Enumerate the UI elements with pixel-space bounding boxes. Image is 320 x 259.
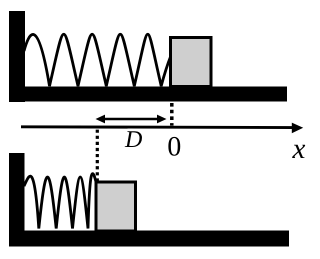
axis label x [292, 145, 305, 158]
bottom floor [9, 231, 289, 247]
x axis arrowhead [292, 123, 303, 134]
top wall [9, 11, 25, 102]
left arrowhead of D arrow [96, 115, 106, 124]
dotted line from top block left edge down to axis (x = 0) [170, 103, 174, 126]
right arrowhead of D arrow [157, 115, 167, 124]
bottom block [96, 182, 136, 231]
dotted line from axis down to bottom block left edge (x = -D) [96, 130, 99, 182]
top block [171, 38, 212, 87]
label D [125, 131, 142, 147]
double-headed arrow for D [100, 118, 163, 121]
top spring [24, 34, 171, 86]
label 0 [168, 137, 180, 156]
bottom wall [9, 153, 25, 247]
bottom spring (compressed) [24, 174, 97, 229]
x axis line [21, 125, 294, 129]
top floor [9, 87, 287, 102]
